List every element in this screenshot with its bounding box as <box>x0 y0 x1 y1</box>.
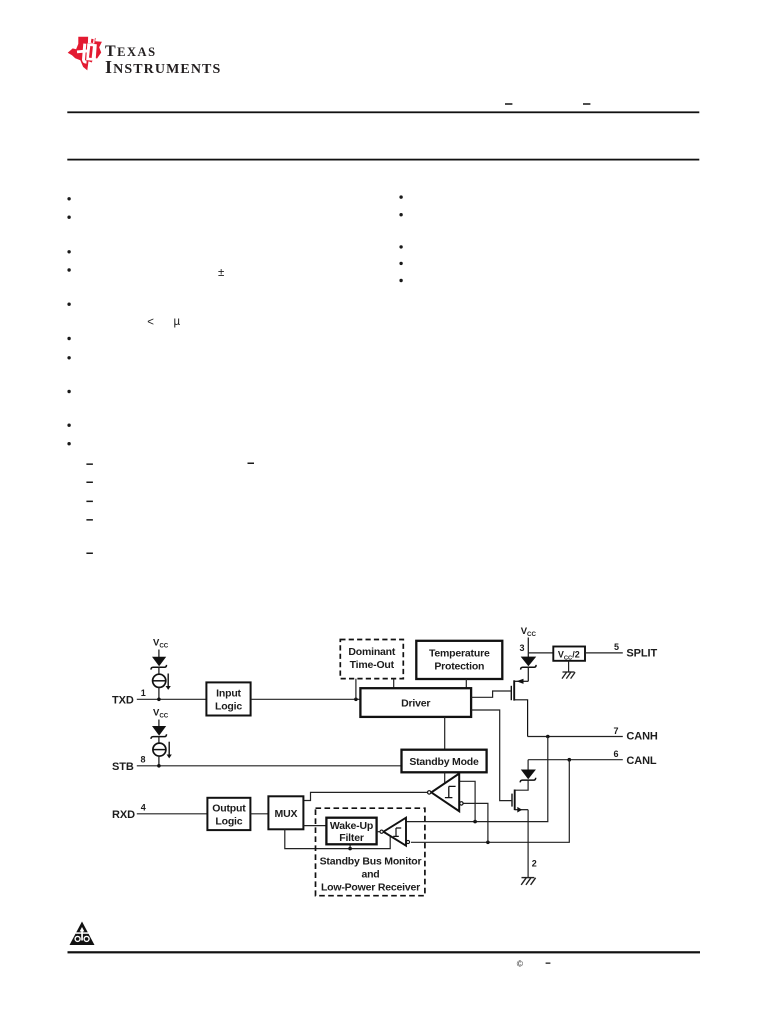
wire VCC to zener D4 <box>158 720 160 727</box>
footer rule <box>68 951 701 953</box>
footer dash <box>546 963 551 964</box>
wire Standby Mode to receiver U2 <box>444 772 446 783</box>
wire VCC/2 to ground <box>568 661 570 672</box>
svg-text:Driver: Driver <box>401 698 430 710</box>
svg-text:Logic: Logic <box>215 700 242 712</box>
wire Driver to Q2 gate <box>471 710 511 801</box>
header dash a <box>505 103 512 105</box>
wire VCC to zener D1 <box>158 650 160 658</box>
TI logo <box>68 37 222 77</box>
svg-text:Protection: Protection <box>434 661 484 673</box>
wire U3 output to Wake-Up Filter <box>377 831 380 833</box>
svg-text:©: © <box>517 959 524 969</box>
svg-text:Temperature: Temperature <box>429 648 490 660</box>
block Temperature Protection U6 <box>416 641 502 679</box>
wire Input Logic to Driver <box>251 698 361 700</box>
zener diode D3 <box>521 657 537 681</box>
junction CANL sense branch <box>486 841 490 845</box>
wire RXD to Output Logic <box>137 813 208 815</box>
block MUX U11 <box>268 796 303 829</box>
svg-text:and: and <box>361 869 379 881</box>
wire Output Logic to MUX <box>250 813 268 815</box>
wire I1 to TXD node <box>158 687 160 699</box>
ground G1 (SPLIT reference) <box>562 672 575 679</box>
features bullets right <box>399 195 402 282</box>
dashed block Standby Bus Monitor / Low-Power Receiver <box>316 808 425 896</box>
header dash b <box>583 103 590 105</box>
block Input Logic U4 <box>206 682 250 715</box>
junction CANL node <box>568 758 572 762</box>
wire Q2 source to ground pin 2 <box>527 810 529 878</box>
block Dominant Time-Out U5 (dashed) <box>340 640 403 679</box>
svg-text:Output: Output <box>212 802 246 814</box>
svg-text:TXD: TXD <box>112 695 134 707</box>
wire TXD to Input Logic <box>137 698 207 700</box>
junction CANH node <box>546 735 550 739</box>
svg-text:±: ± <box>218 267 224 279</box>
junction filter bottom node <box>348 847 352 851</box>
wire STB to Standby Mode <box>137 765 402 767</box>
transistor Q1 (high-side) <box>511 679 528 737</box>
svg-text:3: 3 <box>520 643 525 653</box>
wire VCC pin3 down <box>527 638 529 658</box>
zener diode D4 <box>151 726 167 743</box>
svg-text:1: 1 <box>141 688 146 698</box>
current arrow I2 <box>167 742 172 759</box>
svg-text:4: 4 <box>141 803 146 813</box>
zener diode D1 <box>151 657 167 674</box>
svg-text:Input: Input <box>216 687 241 699</box>
block Standby Mode U9 <box>402 750 487 773</box>
wire Dominant Time-Out to Driver <box>393 679 395 689</box>
block VCC/2 reference U8 <box>553 647 585 662</box>
svg-text:8: 8 <box>141 755 146 765</box>
sub-item dashes <box>86 463 254 555</box>
wire MUX to Wake-Up Filter <box>303 825 326 827</box>
features bullets left <box>67 197 70 445</box>
block Driver U7 <box>360 688 471 717</box>
zener diode D2 <box>515 760 536 791</box>
wire CANH <box>528 736 623 738</box>
wire Driver to Q1 gate <box>471 691 511 697</box>
wire U2 output to MUX <box>303 792 427 800</box>
transistor Q2 (low-side) <box>512 790 528 813</box>
junction TXD node <box>157 698 161 702</box>
block Output Logic U10 <box>207 798 250 830</box>
svg-text:<: < <box>147 316 154 328</box>
footer warning icon <box>70 922 95 946</box>
svg-text:RXD: RXD <box>112 809 135 821</box>
svg-text:SPLIT: SPLIT <box>626 647 657 659</box>
svg-text:5: 5 <box>614 642 619 652</box>
wire CANH sense to receiver <box>406 737 548 822</box>
svg-text:Wake-Up: Wake-Up <box>330 820 373 832</box>
svg-text:CANL: CANL <box>626 755 657 767</box>
svg-text:7: 7 <box>614 726 619 736</box>
svg-text:6: 6 <box>614 749 619 759</box>
wire VCC/2 to SPLIT <box>585 652 623 654</box>
wire filter bottom stub <box>349 844 351 848</box>
op-amp U3 (wake-up comparator) <box>380 818 410 846</box>
wire CANL sense to U2 inverting input <box>463 803 488 842</box>
svg-text:2: 2 <box>532 859 537 869</box>
svg-text:CANH: CANH <box>626 731 658 743</box>
wire I2 to STB node <box>158 756 160 766</box>
svg-text:Logic: Logic <box>215 815 242 827</box>
junction STB node <box>157 764 161 768</box>
svg-text:MUX: MUX <box>275 808 298 820</box>
wire CANL sense to receiver <box>411 760 569 843</box>
wire pin3 node to VCC/2 <box>528 652 553 654</box>
svg-text:Low-Power Receiver: Low-Power Receiver <box>321 882 420 894</box>
current arrow I1 <box>166 674 171 690</box>
op-amp U2 (receiver comparator) <box>428 774 464 812</box>
junction at Driver input node <box>354 698 358 702</box>
wire Temperature Protection to Driver <box>465 679 467 688</box>
svg-text:µ: µ <box>174 316 181 328</box>
wire CANL <box>528 759 623 761</box>
svg-text:Dominant: Dominant <box>348 646 396 658</box>
svg-text:Filter: Filter <box>339 832 364 844</box>
junction CANH sense branch <box>473 820 477 824</box>
wire CANH sense to U2 input <box>459 781 475 821</box>
wire MUX bottom feedback <box>285 829 390 848</box>
header rule 1 <box>67 111 699 113</box>
ground G2 (pin 2) <box>521 878 535 885</box>
current source I1 <box>153 674 166 687</box>
header rule 2 <box>67 159 699 161</box>
svg-text:Standby Bus Monitor: Standby Bus Monitor <box>320 856 422 868</box>
wire Driver to Standby Mode <box>444 717 446 750</box>
svg-text:STB: STB <box>112 761 134 773</box>
svg-text:Time-Out: Time-Out <box>350 659 395 671</box>
block Wake-Up Filter U12 <box>326 818 376 845</box>
wire junction to Dominant Time-Out <box>355 679 357 700</box>
svg-text:Standby Mode: Standby Mode <box>409 756 479 768</box>
current source I2 <box>153 743 166 756</box>
